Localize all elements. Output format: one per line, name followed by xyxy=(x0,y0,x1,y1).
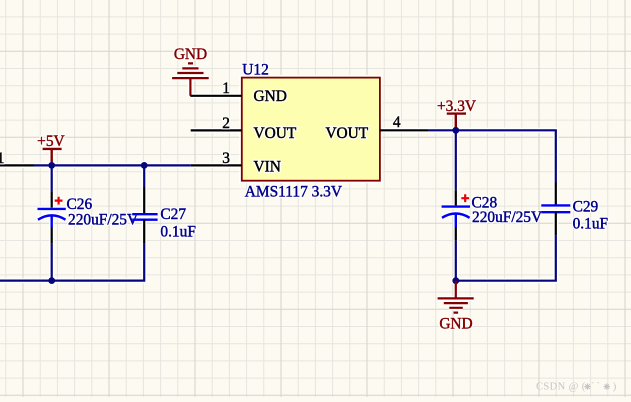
capacitor C28 polarity + xyxy=(461,194,469,202)
svg-text:220uF/25V: 220uF/25V xyxy=(68,212,138,229)
power port +3.3V xyxy=(447,114,466,131)
pin C26 bottom lead xyxy=(51,228,53,244)
pin C27 bottom lead xyxy=(143,220,145,244)
pin C27 top lead xyxy=(143,187,145,214)
white halo casing layer under all strokes xyxy=(0,63,570,312)
svg-text:0.1uF: 0.1uF xyxy=(573,216,609,233)
pin C28 bottom lead xyxy=(455,227,457,241)
wire C29 bottom and ground rail bottom-right xyxy=(456,236,556,281)
watermark xyxy=(536,382,617,393)
junction bottom-right rail / GND xyxy=(452,277,459,284)
svg-text:0.1uF: 0.1uF xyxy=(160,224,196,241)
svg-text:+3.3V: +3.3V xyxy=(437,98,476,115)
svg-text:`: ` xyxy=(597,382,601,393)
wire C28 bottom xyxy=(455,241,457,281)
svg-text:220uF/25V: 220uF/25V xyxy=(472,209,542,226)
svg-text:´: ´ xyxy=(591,382,595,393)
junction +3.3V / C28 xyxy=(452,127,459,134)
pin C29 top lead xyxy=(555,183,557,206)
svg-text:): ) xyxy=(613,382,617,393)
svg-text:2: 2 xyxy=(222,115,230,132)
capacitor C28 xyxy=(442,129,543,280)
pin C28 top lead xyxy=(455,190,457,205)
svg-text:C27: C27 xyxy=(160,206,186,223)
svg-text:+5V: +5V xyxy=(37,133,65,150)
junction +5V / C26 xyxy=(48,162,55,169)
svg-text:C26: C26 xyxy=(67,196,93,213)
wire C28 top xyxy=(455,129,457,190)
pin 2 (VOUT left) of U12 xyxy=(191,129,242,131)
capacitor C26 curved plate xyxy=(38,215,66,227)
power port +5V xyxy=(43,149,62,166)
regulator U12 body xyxy=(242,78,380,181)
pin 4 (VOUT right) of U12 xyxy=(380,129,429,131)
junction C27 top xyxy=(141,162,148,169)
pin C26 top lead xyxy=(51,192,53,208)
junction bottom-left rail / C26 xyxy=(48,277,55,284)
pin 3 (VIN) of U12 xyxy=(191,164,242,166)
wire C27 top xyxy=(143,164,145,187)
svg-text:GND: GND xyxy=(174,46,207,63)
capacitor C26 positive plate xyxy=(38,208,66,210)
svg-text:1: 1 xyxy=(0,150,5,167)
svg-text:4: 4 xyxy=(393,114,401,131)
wire C26 top xyxy=(51,164,53,191)
wire C27 bottom and ground rail bottom-left xyxy=(0,243,144,280)
capacitor C26 xyxy=(38,164,139,280)
svg-text:GND: GND xyxy=(254,88,287,105)
capacitor C29 plates xyxy=(541,205,570,212)
capacitor C28 curved plate xyxy=(442,214,470,228)
svg-text:1: 1 xyxy=(222,80,230,97)
pin 1 (GND) of U12 xyxy=(190,95,242,97)
power port GND (bottom) xyxy=(438,281,474,313)
capacitor C29 xyxy=(456,183,608,281)
svg-text:3: 3 xyxy=(222,150,230,167)
svg-text:VIN: VIN xyxy=(254,159,281,176)
svg-text:CSDN @ (: CSDN @ ( xyxy=(536,382,586,393)
power port GND (top) xyxy=(172,63,209,95)
capacitor C27 plates xyxy=(132,214,157,220)
svg-text:U12: U12 xyxy=(242,61,269,78)
watermark star glyphs xyxy=(584,383,610,389)
svg-text:VOUT: VOUT xyxy=(325,125,368,142)
capacitor C26 polarity + xyxy=(55,197,63,205)
wire +5V rail xyxy=(34,164,191,166)
wire 3.3V net xyxy=(429,130,556,182)
wire C26 bottom xyxy=(51,243,53,280)
capacitor C28 positive plate xyxy=(442,205,470,207)
svg-text:VOUT: VOUT xyxy=(254,125,297,142)
svg-text:GND: GND xyxy=(439,315,472,332)
pin C29 bottom lead xyxy=(555,212,557,236)
svg-text:AMS1117 3.3V: AMS1117 3.3V xyxy=(245,184,342,201)
off-sheet component pin (left edge) xyxy=(0,164,34,166)
svg-text:C29: C29 xyxy=(573,199,599,216)
capacitor C27 xyxy=(0,164,196,280)
